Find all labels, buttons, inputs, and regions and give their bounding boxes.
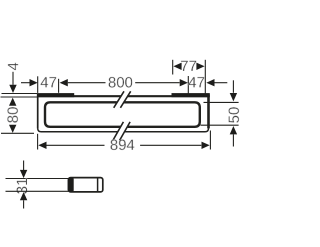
dim 4 down arrow [9,85,16,93]
dim 894 right arrow [202,142,210,149]
dim 47 left: tail line and right-pointing arrow [21,82,30,84]
dim 31 down arrow [20,170,27,178]
dim 800 left arrow [60,79,68,86]
dim 50 lower tail [232,134,234,146]
dim 894 left arrow [38,142,46,149]
svg-text:800: 800 [108,74,133,91]
break mark slashes top [114,91,131,108]
dim 894 right ext line [209,131,211,150]
svg-text:77: 77 [180,58,197,75]
side profile outer rounded rect [68,178,102,192]
svg-text:47: 47 [40,74,57,91]
ext line right hole [187,76,189,97]
dim 4 arrow tail top [12,72,14,85]
towel bar outer contour left edge [37,94,39,129]
towel bar right edge thick [207,95,210,129]
dim 50 upper tail [232,80,234,93]
dim 894 line left segment [47,144,105,146]
dim 894 line right segment [140,144,201,146]
inner face contour rounded rect [45,102,200,127]
side profile inner face line [97,178,99,191]
break mark slashes bottom [113,122,130,140]
dim 50 up arrow [230,126,237,134]
svg-text:80: 80 [5,107,22,124]
side profile wall plate filled band [68,178,74,192]
svg-text:4: 4 [5,62,22,70]
dim 77 right arrow [196,63,204,70]
towel bar outer top line [37,95,209,97]
towel bar outer bottom edge with corners [38,128,209,132]
dim 4 upper ref line (bracket top extended) [2,93,38,95]
dim 50 upper ext line (inner top extended) [204,101,239,103]
dim 80 down arrow [9,125,16,133]
svg-text:894: 894 [110,137,135,154]
dim 80 up arrow [9,98,16,106]
ext line bracket right edge [204,60,206,97]
ext line left hole [58,79,60,93]
svg-text:50: 50 [226,107,243,124]
dim 4 lower ref line (bar top extended) [1,96,38,98]
ext line bar left end top [37,76,39,93]
dim 47 right: left-pointing arrow and tail [206,79,214,86]
dim 31 top ref line [6,178,69,180]
dim 800 line right segment [135,82,179,84]
dim 800 line left segment [68,82,106,84]
dim 31 up arrow [20,192,27,200]
dim 800 right arrow [180,79,188,86]
dim 50 down arrow [230,93,237,101]
left mounting bracket band [37,93,74,97]
dim 31 upper tail [23,161,25,171]
dim 894 left ext line [37,134,39,150]
svg-text:47: 47 [188,74,205,91]
right mounting bracket band [172,93,210,97]
dim 80 bottom ref line [1,132,34,134]
dim 50 lower ext line [201,124,239,126]
ext line bracket left edge (77) [172,60,174,75]
dim 31 lower tail [23,200,25,208]
dim 77 left arrow [173,63,181,70]
dim 31 bottom ref line [6,190,69,192]
